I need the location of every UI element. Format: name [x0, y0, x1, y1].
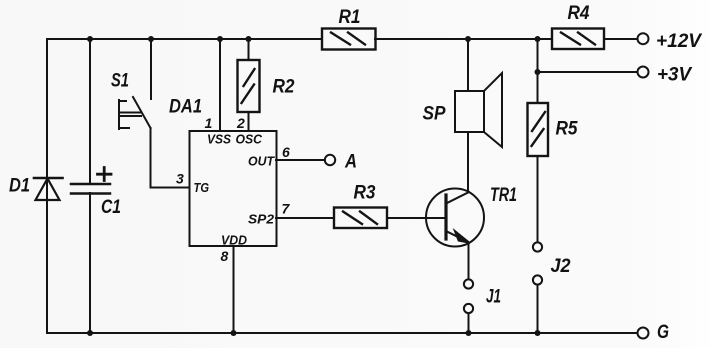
junction dot speaker top	[465, 36, 471, 42]
svg-text:DA1: DA1	[169, 96, 202, 118]
svg-text:1: 1	[205, 115, 213, 131]
junction dot J1 bottom	[466, 330, 472, 336]
pushbutton S1	[119, 97, 151, 129]
wire pin1 VSS lead	[219, 39, 221, 131]
svg-text:D1: D1	[9, 175, 30, 197]
svg-text:SP2: SP2	[248, 213, 274, 227]
svg-text:A: A	[344, 151, 357, 173]
junction dot VDD bottom	[231, 330, 237, 336]
wire J1 bottom lead	[468, 314, 470, 334]
svg-text:R4: R4	[568, 2, 590, 24]
diode D1	[34, 178, 63, 200]
wire top bus middle segment	[375, 38, 552, 40]
wire C1 branch upper	[89, 39, 91, 184]
wire OUT pin lead	[276, 159, 325, 161]
svg-text:J2: J2	[551, 255, 571, 277]
wire R3 to transistor base	[387, 217, 446, 219]
wire R2 bottom lead to pin2	[248, 112, 250, 131]
resistor R1	[322, 29, 376, 50]
junction dot C1 top	[87, 36, 93, 42]
wire R5 bottom to J2	[537, 156, 539, 242]
wire S1 top lead	[150, 39, 152, 99]
resistor R5	[528, 103, 549, 156]
svg-text:R3: R3	[354, 182, 376, 204]
svg-text:R5: R5	[556, 118, 579, 140]
junction dot J2 bottom	[535, 330, 541, 336]
svg-text:6: 6	[282, 144, 290, 160]
svg-text:C1: C1	[101, 196, 121, 218]
jumper J2 bottom circle	[533, 275, 542, 284]
terminal A circle	[325, 155, 335, 165]
terminal G circle	[638, 328, 649, 339]
terminal +3V circle	[638, 67, 649, 78]
svg-text:S1: S1	[111, 70, 129, 92]
junction dot +3V node	[535, 69, 541, 75]
junction dot C1 bottom	[87, 330, 93, 336]
wire speaker top lead	[467, 39, 469, 91]
svg-text:8: 8	[221, 248, 229, 264]
speaker SP	[455, 73, 502, 147]
resistor R2	[238, 60, 260, 112]
svg-text:TG: TG	[194, 181, 210, 195]
wire top bus left segment	[47, 38, 322, 40]
wire left vertical D1 branch	[46, 39, 48, 333]
svg-text:+3V: +3V	[657, 64, 693, 86]
junction dot R4 node	[535, 36, 541, 42]
jumper J2 top circle	[533, 242, 542, 251]
svg-text:R1: R1	[339, 6, 361, 28]
wire bottom bus	[47, 332, 637, 334]
junction dot R2 top	[246, 36, 252, 42]
svg-text:TR1: TR1	[490, 184, 517, 206]
svg-text:OSC: OSC	[236, 133, 263, 147]
wire R4 node vertical to +3V node	[537, 39, 539, 72]
wire +3V node to R5	[537, 72, 539, 103]
transistor TR1	[426, 189, 484, 247]
capacitor C1	[71, 168, 111, 194]
svg-text:2: 2	[236, 115, 245, 131]
wire S1 bottom lead to TG	[151, 128, 190, 188]
wire C1 branch lower	[89, 193, 91, 333]
jumper J1 top circle	[464, 279, 473, 288]
wire +3V horizontal	[538, 71, 638, 73]
wire R2 top lead	[248, 39, 250, 60]
svg-text:SP: SP	[423, 103, 447, 125]
svg-text:VDD: VDD	[221, 234, 247, 248]
svg-text:J1: J1	[486, 286, 501, 308]
resistor R4	[552, 29, 604, 50]
svg-text:OUT: OUT	[248, 155, 275, 169]
jumper J1 bottom circle	[464, 304, 473, 313]
junction dot pin1 top	[217, 36, 223, 42]
svg-text:3: 3	[176, 171, 184, 187]
svg-text:+12V: +12V	[656, 30, 703, 52]
wire J2 bottom lead	[537, 285, 539, 333]
resistor R3	[334, 208, 387, 229]
junction dot S1 top	[148, 36, 154, 42]
wire emitter to J1	[468, 243, 470, 279]
svg-text:R2: R2	[273, 76, 295, 98]
svg-text:VSS: VSS	[207, 133, 232, 147]
wire top bus right segment to +12V	[604, 38, 637, 40]
wire VDD pin 8 lead	[233, 246, 235, 333]
svg-text:7: 7	[282, 201, 291, 217]
wire SP2 pin lead to R3	[276, 217, 334, 219]
terminal +12V circle	[638, 33, 649, 44]
wire speaker bottom to collector	[467, 132, 469, 192]
IC DA1 body	[190, 131, 277, 246]
svg-text:G: G	[657, 321, 669, 343]
